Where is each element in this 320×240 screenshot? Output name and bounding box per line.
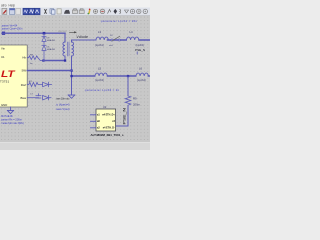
- svg-text:SW: SW: [21, 69, 26, 73]
- svg-text:(Lpcb1): (Lpcb1): [136, 43, 145, 47]
- svg-text:.lib PoE.lib: .lib PoE.lib: [1, 114, 14, 118]
- svg-text:.tran 10m uic: .tran 10m uic: [56, 98, 71, 101]
- inductor L3: [96, 39, 107, 41]
- svg-text:(Lpcb3): (Lpcb3): [95, 78, 104, 82]
- pin labels U2: [97, 114, 115, 130]
- capacitor C7 at pin Bias: [27, 94, 41, 98]
- label L5 (Lpcb3): [95, 67, 104, 82]
- resistor R8 at pin Hb: [27, 56, 43, 61]
- pin labels U1: [0, 47, 27, 107]
- pin stubs U2 left: [91, 115, 97, 128]
- svg-text:n4 ETH_D-: n4 ETH_D-: [103, 127, 115, 130]
- junction at primary bottom: [64, 59, 66, 61]
- label R9 200m: [133, 96, 141, 106]
- junction at diode string: [43, 32, 46, 35]
- svg-text:Vdiode: Vdiode: [77, 35, 89, 39]
- toolbar icons: [2, 8, 148, 14]
- svg-text:U2: U2: [103, 105, 107, 109]
- wire SW pin: [27, 70, 71, 72]
- label L3 (Lpcb1): [95, 30, 104, 47]
- label D5 SMAJ58A: [47, 37, 56, 42]
- svg-text:L5: L5: [98, 67, 102, 71]
- svg-text:1m: 1m: [30, 63, 33, 65]
- IC U1: [0, 45, 27, 107]
- directive block bottom-left: [1, 114, 24, 125]
- wire Hb to primary: [44, 60, 66, 62]
- svg-text:SMAJ58: SMAJ58: [47, 39, 56, 42]
- label L6 (Lpcb4): [137, 67, 146, 82]
- svg-text:GND: GND: [1, 103, 7, 107]
- toolbar: [0, 8, 150, 16]
- inductor L6: [136, 75, 147, 77]
- diode D5: [42, 33, 46, 41]
- ground under transformer: [68, 95, 75, 98]
- svg-text:n4 ETH_D+: n4 ETH_D+: [102, 114, 115, 117]
- svg-text:SMAJ58: SMAJ58: [47, 48, 56, 51]
- svg-text:R9: R9: [133, 96, 137, 100]
- svg-text:200m: 200m: [133, 102, 141, 106]
- svg-text:.save V(out): .save V(out): [56, 107, 70, 111]
- diode D6: [42, 41, 46, 60]
- svg-text:ALT4802M_2B1_T001_s: ALT4802M_2B1_T001_s: [91, 133, 125, 137]
- node A input flag: [2, 32, 5, 35]
- inductor L4: [127, 39, 138, 41]
- transformer T1 primary winding L1: [63, 42, 65, 56]
- svg-text:atro: atro: [1, 3, 7, 7]
- svg-text:Help: Help: [9, 3, 16, 7]
- wire return rail: [72, 75, 137, 77]
- junction return rail left: [70, 75, 72, 77]
- svg-text:Bias: Bias: [21, 96, 27, 100]
- diode D7: [43, 82, 52, 86]
- resistor R7 at pin Rref: [27, 82, 42, 86]
- schematic canvas: [0, 16, 150, 143]
- wire secondary bottom to ground: [71, 56, 73, 95]
- window background: [0, 0, 150, 150]
- status bar: [0, 142, 150, 150]
- wire to resistor R9: [127, 76, 129, 95]
- svg-text:L3: L3: [98, 30, 102, 34]
- diode D8: [43, 96, 51, 100]
- label R8 1m: [30, 54, 34, 65]
- wire PSE rail right: [107, 39, 150, 41]
- wire into transformer primary: [64, 33, 66, 42]
- ground under U1: [7, 111, 13, 114]
- junction Hb: [42, 59, 44, 61]
- junction return rail at R9: [127, 75, 129, 77]
- wire primary bottom: [64, 56, 66, 61]
- svg-text:K1 L1 L2: K1 L1 L2: [59, 31, 68, 33]
- label L4 (Lpcb1): [130, 30, 145, 47]
- transformer T1 secondary winding L2: [72, 42, 74, 56]
- wire Vin rail: [2, 32, 65, 34]
- svg-text:.param Rs = 200m: .param Rs = 200m: [1, 118, 22, 122]
- svg-text:Vin: Vin: [1, 47, 5, 51]
- svg-text:U1: U1: [1, 55, 5, 59]
- svg-text:Hb: Hb: [22, 56, 26, 60]
- svg-text:PSE_N: PSE_N: [135, 48, 145, 52]
- svg-text:Rref: Rref: [21, 83, 27, 87]
- current arrow: [70, 31, 77, 33]
- svg-text:PSE_N: PSE_N: [122, 107, 126, 124]
- svg-text:.parameter Lpcb3 = 2n: .parameter Lpcb3 = 2n: [84, 88, 120, 92]
- svg-text:.param Cpse=100n: .param Cpse=100n: [1, 27, 23, 30]
- svg-text:LT: LT: [1, 69, 16, 79]
- svg-text:.ic V(pse)=0: .ic V(pse)=0: [56, 102, 70, 106]
- menu bar: [0, 0, 150, 8]
- svg-text:.meas Ipk max I(Rs): .meas Ipk max I(Rs): [1, 121, 24, 125]
- IC U2: [96, 109, 116, 131]
- wire R9 to U2: [116, 107, 128, 127]
- svg-text:.parameter Lpcb1 = 20n: .parameter Lpcb1 = 20n: [100, 19, 138, 23]
- spice directive text block top-left: [1, 24, 23, 30]
- wire GND pin: [10, 107, 12, 111]
- svg-text:L6: L6: [139, 67, 143, 71]
- switch S2: [111, 39, 113, 41]
- resistor R9: [125, 95, 131, 107]
- wire L6 to edge: [148, 75, 150, 77]
- svg-text:T3751: T3751: [0, 79, 9, 83]
- wire secondary top to node Vdiode: [72, 40, 97, 42]
- svg-text:L4: L4: [130, 30, 134, 34]
- label D6 SMAJ58A: [47, 46, 56, 51]
- inductor L5: [95, 75, 106, 77]
- svg-text:(Lpcb4): (Lpcb4): [137, 78, 146, 82]
- transformer core: [66, 42, 68, 56]
- junction SW at vertical: [70, 69, 72, 71]
- svg-text:(Lpcb1): (Lpcb1): [95, 43, 104, 47]
